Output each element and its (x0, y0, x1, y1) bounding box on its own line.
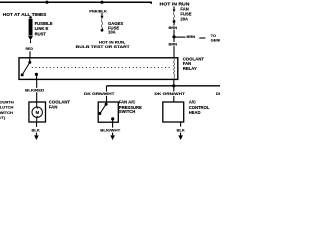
fan fuse arrow (173, 9, 176, 12)
ground pressure switch (110, 135, 115, 140)
wire top power rail (0, 2, 151, 4)
wire into relay switch (29, 58, 31, 61)
svg-text:DK GRN/WHT: DK GRN/WHT (84, 91, 115, 96)
wire pressure switch to ground (112, 119, 114, 128)
gages fuse stub (101, 13, 103, 16)
node bus junction (172, 84, 175, 87)
box A/C control head (163, 102, 184, 122)
node rail junction right (100, 1, 103, 4)
svg-text:BULB TEST OR START: BULB TEST OR START (76, 44, 131, 49)
svg-text:HEAD: HEAD (189, 110, 201, 115)
ground stub motor (35, 133, 37, 136)
dashed relay actuation line (32, 67, 172, 69)
wire RED into relay box (29, 51, 31, 58)
box fan A/C pressure switch (98, 102, 118, 122)
pressure switch blade (100, 104, 106, 113)
svg-text:DK GRN/WHT: DK GRN/WHT (155, 91, 186, 96)
svg-text:BRN: BRN (187, 34, 196, 39)
node BRN junction (172, 35, 175, 38)
pressure switch lower contact (98, 112, 101, 115)
wire below fusible link (30, 40, 32, 43)
label BLK/RED (25, 88, 45, 92)
wire BRN vertical (173, 23, 175, 58)
wire control head to ground (180, 122, 182, 127)
wire motor to box bottom (36, 117, 38, 122)
pressure switch output contact (111, 117, 114, 120)
svg-text:M: M (36, 110, 40, 115)
svg-text:BLK: BLK (177, 127, 185, 132)
wire DK GRN/WHT bus (107, 85, 221, 87)
ground stub control head (180, 133, 182, 136)
relay switch output contact (35, 73, 38, 76)
relay switch blade (22, 62, 30, 75)
label BRN lower (168, 42, 179, 46)
svg-text:BLK/WHT: BLK/WHT (100, 127, 121, 132)
wire BRN branch to generator (174, 36, 186, 38)
svg-text:RELAY: RELAY (183, 66, 197, 71)
relay box coolant fan relay (19, 58, 178, 80)
node rail junction left (45, 1, 48, 4)
fusible link E body (29, 19, 33, 36)
pressure switch top contact (105, 103, 108, 106)
svg-text:RUST: RUST (35, 31, 47, 36)
wire into motor (36, 102, 38, 107)
fan fuse stub (173, 7, 175, 10)
wire motor to ground (36, 122, 38, 127)
wire from output contact (36, 74, 38, 79)
wire BRN branch dash continued (199, 37, 205, 39)
wire BLK/RED relay to motor (36, 79, 38, 102)
ground motor (34, 135, 39, 140)
gages fuse arrow (101, 16, 104, 20)
svg-text:FAN: FAN (49, 105, 58, 110)
gages fuse bottom node (101, 29, 104, 32)
relay switch top contact (28, 61, 31, 64)
svg-text:10A: 10A (108, 30, 116, 35)
wire to ground pressure switch (112, 133, 114, 136)
svg-text:PNK/BLK: PNK/BLK (89, 8, 107, 13)
fusible link E arrow (28, 36, 33, 40)
wire bus down to pressure switch (106, 86, 108, 104)
svg-text:RED: RED (26, 46, 33, 51)
svg-text:(A/T): (A/T) (0, 115, 6, 120)
svg-text:BLK: BLK (32, 127, 40, 132)
svg-text:BRN: BRN (169, 41, 178, 46)
fan fuse bottom node (173, 20, 176, 23)
motor M circle (32, 107, 42, 117)
fuse FAN element (173, 12, 174, 20)
relay switch lower contact (21, 73, 24, 76)
label BRN upper (168, 25, 179, 29)
fuse GAGES element (101, 19, 102, 29)
fusible link E top node (29, 16, 32, 19)
wire connector relay to bus to control head (173, 79, 175, 102)
svg-text:DK: DK (216, 91, 220, 96)
box coolant fan motor (29, 102, 46, 122)
svg-text:HOT IN RUN: HOT IN RUN (160, 1, 190, 6)
relay coil (173, 58, 174, 80)
svg-text:HOT AT ALL TIMES: HOT AT ALL TIMES (3, 12, 47, 17)
svg-text:BLK/RED: BLK/RED (25, 87, 44, 92)
svg-text:20A: 20A (180, 17, 188, 22)
svg-text:SWITCH: SWITCH (119, 109, 136, 114)
svg-text:BRN: BRN (169, 25, 178, 30)
svg-text:GENE: GENE (211, 38, 220, 43)
label DK GRN/WHT left (83, 92, 115, 96)
ground control head (178, 135, 183, 140)
svg-text:A/C: A/C (189, 100, 196, 105)
label DK GRN/WHT right (154, 92, 186, 96)
